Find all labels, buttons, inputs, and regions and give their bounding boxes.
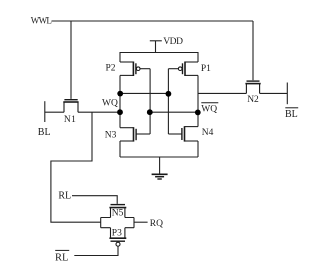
svg-text:P1: P1 <box>201 64 211 74</box>
wire N1 gate drop from WWL <box>70 21 72 99</box>
svg-text:P2: P2 <box>106 64 116 74</box>
svg-text:WWL: WWL <box>31 16 52 26</box>
node BLbar terminal stub <box>286 83 288 105</box>
wire ground stub <box>159 157 161 174</box>
transistor P3 <box>109 228 126 247</box>
svg-text:N3: N3 <box>105 130 117 140</box>
node WQ junction dot upper <box>117 91 123 97</box>
transistor P1 <box>178 62 185 77</box>
transistor N4 <box>182 126 185 141</box>
node junction dot lower rail left <box>147 109 153 115</box>
wire cross-couple right vertical (P1 gate to N4 gate) <box>167 69 169 134</box>
wire N4 top lead <box>185 126 199 128</box>
wire WQbar to N2 <box>198 92 246 94</box>
ground <box>152 174 168 179</box>
wire WQbar vertical (P1 drain to N4 drain) <box>197 75 199 126</box>
svg-text:WQ: WQ <box>102 99 118 109</box>
svg-text:WQ: WQ <box>201 105 217 115</box>
wire cross-couple left vertical (P2 gate to N3 gate) <box>149 69 151 134</box>
wire P1 source lead <box>185 61 198 63</box>
wire RL to N5 gate <box>72 196 117 204</box>
transistor N1 <box>63 100 78 113</box>
wire N4 gate lead <box>168 133 182 135</box>
wire VDD T-bar <box>150 40 162 42</box>
wire P2 source lead <box>120 61 133 63</box>
wire N3 gate lead <box>136 133 150 135</box>
svg-text:BL: BL <box>38 127 51 138</box>
node WQ junction dot lower <box>117 109 123 115</box>
wire P2 drain lead <box>120 74 133 76</box>
wire P1 drain lead <box>185 74 198 76</box>
svg-text:RL: RL <box>55 253 68 264</box>
wire VDD rail box top <box>120 53 198 63</box>
wire P2 gate lead <box>140 68 150 70</box>
wire N3 top lead <box>120 127 134 129</box>
svg-text:VDD: VDD <box>163 37 183 47</box>
wire transmission-gate right arm <box>125 218 134 228</box>
svg-text:N4: N4 <box>202 128 214 138</box>
wire WQ vertical (P2 drain to N3 drain) <box>119 75 121 127</box>
wire N2 gate drop from WWL <box>252 21 254 80</box>
node BL terminal stub <box>44 101 46 122</box>
wire ground rail <box>120 156 198 158</box>
wire transmission-gate left arm <box>101 218 111 228</box>
wire RLbar to P3 gate bubble <box>74 246 118 255</box>
svg-text:N1: N1 <box>64 115 76 125</box>
wire P1 gate lead <box>168 68 178 70</box>
wire read-port tap down-left to transmission gate <box>51 112 101 222</box>
transistor N2 <box>245 81 260 93</box>
wire N2 right lead <box>260 92 288 94</box>
svg-text:RQ: RQ <box>150 219 163 229</box>
transistor N5 <box>109 205 126 218</box>
wire VDD stub <box>155 41 157 53</box>
wire N4 bottom lead <box>185 140 199 142</box>
svg-text:P3: P3 <box>112 229 122 239</box>
wire WWL horizontal <box>52 20 254 22</box>
transistor P2 <box>133 62 140 77</box>
svg-text:N5: N5 <box>112 209 124 219</box>
transistor N3 <box>134 127 137 141</box>
svg-text:N2: N2 <box>247 95 259 105</box>
wire lower cross rail WQbar to P2/N3 gates <box>150 111 198 113</box>
wire upper cross rail WQ to P1/N4 gates <box>120 92 168 94</box>
wire RQ output <box>134 221 148 223</box>
node junction dot upper rail right <box>166 91 172 97</box>
wire N3 bottom lead <box>120 140 134 142</box>
wire N1 left lead to BL <box>45 111 64 113</box>
svg-text:BL: BL <box>285 109 298 120</box>
wire N1 right lead to WQ <box>78 111 120 113</box>
node WQbar junction dot lower <box>195 110 201 116</box>
wire N4 source drop <box>197 141 199 157</box>
wire N3 source drop <box>119 141 121 157</box>
svg-text:RL: RL <box>58 190 71 201</box>
